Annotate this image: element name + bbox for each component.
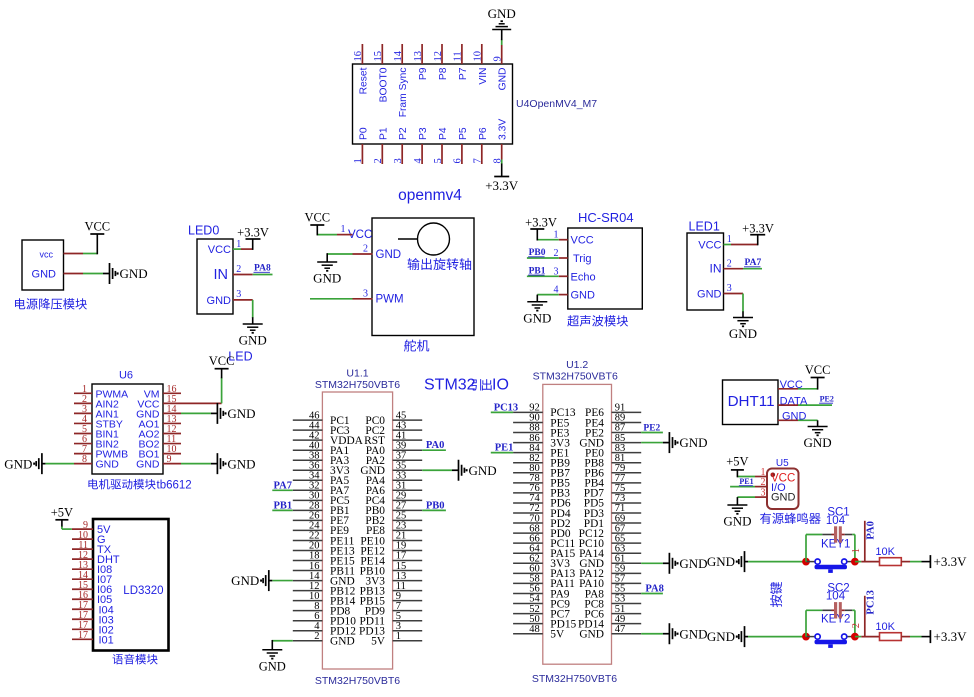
U1.2 pin 69 PD1 (584, 513, 641, 530)
svg-text:STM32H750VBT6: STM32H750VBT6 (533, 371, 618, 383)
wire U6 GND pin9 (181, 463, 211, 465)
U6 pin 1 PWMA (74, 384, 128, 401)
wire LED1 GND down (742, 294, 744, 318)
svg-text:GND: GND (771, 492, 796, 504)
wire DHT11 VCC to VCC (798, 378, 818, 390)
U1.2 pin 89 PE4 (585, 413, 641, 430)
ground below U5 (723, 505, 751, 529)
net label PE2 at DHT11 (819, 395, 834, 404)
svg-text:LD3320: LD3320 (123, 585, 163, 597)
U5 pin 2 (755, 477, 767, 488)
U1.1 pin 34 PA5 (293, 470, 350, 487)
U1.2 pin 84 PE1 (513, 443, 569, 460)
svg-text:P3: P3 (418, 127, 429, 140)
wire U1.1 pin2 GND down (272, 640, 293, 650)
U1.2 pin 64 PA15 (513, 543, 575, 560)
svg-text:PB1: PB1 (274, 500, 293, 511)
wire net PA0 stub U1.1 pin39 (422, 449, 446, 451)
LD3320 pin 12 DHT (72, 550, 120, 566)
svg-text:P7: P7 (458, 67, 469, 80)
svg-text:GND: GND (729, 326, 757, 341)
wire U6 VCC pin15 to VCC (181, 369, 222, 404)
svg-text:LED0: LED0 (188, 224, 219, 238)
U1.2 pin 71 PD3 (584, 503, 641, 520)
push button KEY1 (806, 539, 855, 573)
U1.2 pin 85 GND (579, 433, 641, 450)
svg-text:GND: GND (227, 456, 255, 471)
U4 pin 10 VIN (473, 44, 489, 85)
wire U5 VCC to +5V (737, 470, 755, 477)
U1.2 pin 77 PB4 (584, 473, 641, 490)
svg-text:GND: GND (96, 459, 120, 471)
ground left of U6 pin8 (4, 453, 45, 474)
ground right of U1.1 pin35 (452, 460, 497, 481)
svg-text:GND: GND (679, 626, 707, 641)
LED1 pin 1 VCC (698, 234, 757, 252)
svg-text:STM32H750VBT6: STM32H750VBT6 (315, 379, 400, 391)
LD3320 pin 13 I08 (72, 560, 112, 576)
wire junction to resistor (855, 561, 880, 563)
wire net PE2 stub U1.2 pin87 (641, 432, 663, 434)
U1.2 pin 65 PC10 (579, 533, 642, 550)
svg-text:+5V: +5V (51, 506, 73, 520)
power +3.3V right of KEY1 (930, 554, 967, 569)
label voice module name (113, 654, 158, 665)
power-buck pin GND (32, 269, 83, 281)
wire servo VCC (317, 225, 337, 235)
wire net PC13 vertical (864, 596, 866, 637)
U1.1 pin 18 PE15 (293, 551, 355, 568)
ground below LED0 (239, 324, 267, 348)
U1.1 pin 33 PA4 (366, 470, 422, 487)
svg-text:GND: GND (723, 514, 751, 529)
U1.1 pin 29 PC4 (365, 491, 422, 508)
U1.1 pin 25 PB2 (365, 511, 422, 528)
svg-text:U5: U5 (776, 458, 789, 469)
svg-text:GND: GND (707, 629, 735, 644)
net label PA7 at U1.1 (274, 480, 292, 491)
svg-text:48: 48 (529, 624, 540, 635)
wire capacitor loop SC2 (806, 610, 855, 636)
U1.1 pin 12 PB12 (293, 581, 356, 598)
svg-text:47: 47 (615, 624, 626, 635)
svg-text:PE2: PE2 (643, 424, 660, 434)
U1.2 pin 87 PE2 (585, 423, 641, 440)
svg-text:PC13: PC13 (866, 590, 877, 615)
svg-text:P6: P6 (478, 127, 489, 140)
LD3320 pin 17 I03 (72, 610, 114, 626)
module LD3320 body (93, 519, 169, 651)
net label PB1 at U1.1 (274, 500, 293, 511)
U1.1 pin 23 PE8 (366, 521, 422, 538)
svg-text:VCC: VCC (84, 220, 110, 234)
svg-text:2: 2 (373, 158, 384, 163)
ground right of U1.2 pin85 (663, 432, 708, 453)
wire resistor to +3.3V (901, 561, 930, 563)
net label PE1 at U5 (739, 477, 754, 486)
wire servo GND (327, 253, 352, 262)
svg-text:IN: IN (214, 267, 229, 283)
U1.2 pin 59 PA12 (579, 564, 641, 581)
svg-text:GND: GND (523, 310, 551, 325)
U1.1 pin 46 PC1 (293, 410, 350, 427)
svg-text:GND: GND (4, 456, 32, 471)
module LED0 body (188, 224, 233, 315)
U1.2 pin 54 PC9 (513, 594, 570, 611)
wire LED0 VCC to +3.3V (252, 239, 254, 250)
U1.2 pin 92 PC13 (513, 403, 576, 420)
svg-text:GND: GND (498, 68, 509, 91)
U1.2 pin 47 GND (579, 624, 641, 641)
U1.2 pin 55 PA8 (585, 584, 641, 601)
U1.1 pin 40 PA1 (293, 440, 350, 457)
svg-text:openmv4: openmv4 (398, 187, 462, 204)
module power-buck body (22, 240, 64, 290)
svg-text:PA0: PA0 (426, 440, 444, 451)
U1.1 pin 22 PE11 (293, 531, 355, 548)
net label PC13 at U1.2 (494, 402, 519, 413)
wire U4 pin9 to GND (501, 30, 503, 46)
svg-text:VIN: VIN (478, 68, 489, 85)
wire LED1 IN net PA7 (743, 268, 762, 270)
DHT11 pin VCC (778, 379, 803, 391)
wire net PB0 stub U1.1 pin27 (422, 509, 446, 511)
module HC-SR04 body (568, 210, 643, 309)
U5 pin 3 (755, 488, 767, 499)
svg-text:GND: GND (231, 573, 259, 588)
wire capacitor loop SC1 (806, 535, 855, 562)
U1.2 pin 66 PC11 (513, 533, 575, 550)
U1.1 pin 14 GND (293, 571, 355, 588)
wire HC-SR04 VCC to +3.3V (537, 229, 559, 241)
U1.1 pin 17 PE14 (360, 551, 422, 568)
U6 pin 8 GND (74, 454, 119, 471)
U4 pin 14 Fram Sync (393, 44, 409, 117)
U6 pin 3 AIN1 (74, 404, 119, 421)
LED0 pin 2 IN (214, 264, 253, 283)
U1.1 pin 16 PB11 (293, 561, 355, 578)
svg-text:GND: GND (488, 6, 516, 21)
U4 pin 6 P5 (453, 127, 469, 164)
ground right of U1.2 pin61 (663, 553, 708, 574)
U4 value label openmv4 (398, 187, 462, 204)
svg-text:1: 1 (851, 548, 862, 553)
U6 pin 12 AO2 (138, 424, 181, 441)
svg-text:GND: GND (804, 435, 832, 450)
HC-SR04 pin 4 GND (554, 285, 596, 302)
svg-text:P4: P4 (438, 127, 449, 140)
svg-text:GND: GND (679, 556, 707, 571)
U1.2 reference designator (533, 359, 618, 383)
U1.1 pin 15 PB10 (360, 561, 423, 578)
HC-SR04 pin 1 VCC (554, 230, 594, 247)
svg-text:GND: GND (239, 333, 267, 348)
U1.1 pin 43 PC2 (365, 420, 422, 437)
svg-text:+3.3V: +3.3V (934, 629, 968, 644)
svg-text:+3.3V: +3.3V (742, 222, 774, 236)
net label PB0 (528, 248, 546, 258)
svg-text:STM32: STM32 (424, 377, 476, 394)
U1.2 pin 86 3V3 (513, 433, 570, 450)
svg-text:GND: GND (227, 406, 255, 421)
svg-text:Fram Sync: Fram Sync (398, 68, 409, 118)
module U6 motor driver body (92, 370, 163, 475)
U1.2 pin 74 PD6 (513, 493, 571, 510)
wire U6 GND pin8 (45, 463, 74, 465)
svg-text:GND: GND (469, 463, 497, 478)
junction at KEY2 right (851, 633, 859, 641)
wire LED0 GND down (252, 300, 254, 324)
svg-text:PE2: PE2 (820, 395, 834, 404)
button pin number 2 (851, 623, 862, 628)
U6 pin 10 BO1 (138, 444, 181, 461)
ground right of U6 pin9 (211, 453, 256, 474)
svg-text:2: 2 (236, 264, 241, 275)
label buzzer name (760, 513, 821, 524)
wire U1.2 pin47 GND (641, 633, 663, 635)
HC-SR04 pin 3 Echo (554, 266, 596, 283)
junction at KEY2 left (802, 633, 810, 641)
svg-text:2: 2 (363, 244, 368, 255)
U1.2 pin 90 PE5 (513, 413, 569, 430)
U1.1 pin 20 PE13 (293, 541, 355, 558)
HC-SR04 pin 2 Trig (554, 248, 592, 265)
U1.2 pin 53 PC8 (584, 594, 641, 611)
wire ground to KEY1 (748, 561, 806, 563)
U1.1 pin 4 PD12 (293, 621, 356, 638)
module DHT11 body (723, 380, 779, 425)
svg-text:PC13: PC13 (494, 402, 519, 413)
svg-text:GND: GND (571, 290, 596, 302)
svg-text:GND: GND (32, 269, 57, 281)
wire U1.2 pin61 GND (641, 562, 663, 564)
svg-text:11: 11 (453, 51, 464, 61)
U1.1 bottom value label (315, 675, 400, 687)
svg-text:2: 2 (314, 631, 319, 642)
U1.1 pin 1 5V (371, 631, 422, 648)
LD3320 pin 14 I07 (72, 570, 112, 586)
U6 pin 2 AIN2 (74, 394, 119, 411)
U1.2 pin 70 PD2 (513, 513, 571, 530)
svg-text:104: 104 (826, 515, 846, 527)
svg-text:1: 1 (396, 631, 401, 642)
capacitor SC2 104 (826, 582, 850, 618)
wire net PC13 stub U1.2 pin92 (491, 411, 513, 413)
label servo name (404, 340, 429, 352)
capacitor SC1 104 (826, 507, 850, 543)
U1.1 pin 2 GND (293, 631, 355, 648)
svg-text:Echo: Echo (571, 271, 596, 283)
svg-text:GND: GND (579, 629, 604, 641)
LED1 pin 2 IN (710, 259, 744, 276)
wire GND pin to ground (83, 273, 103, 275)
U6 pin 4 STBY (74, 414, 123, 431)
svg-text:GND: GND (330, 636, 355, 648)
LD3320 pin 11 TX (72, 540, 112, 556)
U4 pin 5 P4 (433, 127, 449, 164)
wire resistor to +3.3V (901, 636, 930, 638)
U1.2 pin 81 PB8 (584, 453, 641, 470)
U4 pin 2 P1 (373, 127, 389, 164)
svg-text:10K: 10K (875, 621, 895, 633)
U1.2 pin 63 PA14 (579, 543, 641, 560)
svg-text:104: 104 (826, 591, 846, 603)
U1.2 pin 58 PA11 (513, 574, 575, 591)
U6 pin 13 AO1 (138, 414, 181, 431)
U1.1 pin 19 PE12 (360, 541, 422, 558)
module LED1 body (687, 220, 724, 311)
U1.1 reference designator (315, 368, 400, 392)
power VCC above DHT11 (805, 363, 831, 378)
LD3320 pin 17 I04 (72, 600, 114, 616)
wire HC-SR04 Trig net PB0 (527, 257, 559, 259)
U4 pin 7 P6 (473, 127, 489, 164)
U1.2 pin 76 PB3 (513, 483, 570, 500)
U4 pin 13 P9 (413, 44, 429, 80)
U6 pin 9 GND (136, 454, 181, 471)
wire +5V to LD3320 pin9 (62, 520, 72, 529)
svg-text:+3.3V: +3.3V (485, 178, 519, 193)
wire DHT11 DATA net PE2 (798, 404, 832, 406)
U6 pin 14 GND (136, 404, 181, 421)
U1.2 pin 57 PA10 (579, 574, 641, 591)
svg-text:5V: 5V (371, 636, 386, 648)
U1.2 pin 52 PC7 (513, 604, 570, 621)
power VCC above servo (304, 211, 330, 226)
U1.1 pin 3 PD13 (359, 621, 422, 638)
U4 pin 1 P0 (353, 127, 369, 164)
svg-text:1: 1 (341, 224, 346, 235)
LD3320 pin 16 I05 (72, 590, 112, 606)
svg-text:1: 1 (727, 234, 732, 245)
U1.2 pin 51 PC6 (584, 604, 641, 621)
servo pin 3 PWM (353, 288, 404, 305)
svg-text:3: 3 (363, 288, 368, 299)
net label PA7 (744, 258, 761, 268)
power +3.3V right of KEY2 (930, 629, 967, 644)
svg-text:GND: GND (679, 435, 707, 450)
svg-text:P5: P5 (458, 127, 469, 140)
net label PA0 at U1.1 (426, 440, 444, 451)
U6 pin 7 PWMB (74, 444, 128, 461)
U6 pin 5 BIN1 (74, 424, 119, 441)
U4 pin 11 P7 (453, 44, 469, 80)
servo pin 2 GND (353, 244, 402, 261)
svg-text:U6: U6 (119, 370, 133, 382)
net label PE1 at U1.2 (495, 443, 514, 454)
svg-text:VCC: VCC (698, 240, 721, 252)
ground left of U1.1 pin14 (231, 570, 272, 591)
U4 pin 15 BOOT0 (373, 44, 389, 102)
ground right of U1.2 pin47 (663, 623, 708, 644)
LED0 pin 1 VCC (208, 239, 253, 256)
junction at KEY1 right (851, 558, 859, 566)
U1.1 pin 11 PB13 (360, 581, 423, 598)
ground below DHT11 (804, 427, 832, 451)
svg-text:I01: I01 (99, 634, 114, 646)
U4 pin 9 GND (493, 45, 509, 90)
svg-text:GND: GND (207, 295, 232, 307)
U1.1 pin 5 PD11 (359, 611, 422, 628)
power +3.3V above LED0 (237, 225, 269, 239)
svg-text:U4OpenMV4_M7: U4OpenMV4_M7 (516, 98, 597, 110)
U1.1 pin 7 PD9 (365, 601, 422, 618)
ground below servo VCC (313, 262, 341, 286)
LD3320 pin 17 I01 (72, 630, 114, 646)
U1.1 pin 31 PA6 (366, 481, 422, 498)
svg-text:3.3V: 3.3V (498, 119, 509, 140)
svg-text:IN: IN (710, 262, 722, 276)
junction at KEY1 left (802, 558, 810, 566)
svg-text:PB0: PB0 (426, 500, 445, 511)
svg-text:3: 3 (236, 289, 241, 300)
U1.2 pin 73 PD5 (584, 493, 641, 510)
U1.1 pin 35 GND (360, 460, 422, 477)
svg-text:VCC: VCC (209, 354, 235, 368)
svg-text:GND: GND (136, 459, 160, 471)
U1.2 pin 49 PD14 (578, 614, 641, 631)
U6 pin 11 BO2 (138, 434, 181, 451)
wire U5 I/O net PE1 (730, 486, 755, 488)
U6 pin 16 VM (144, 384, 181, 401)
svg-text:1: 1 (353, 158, 364, 163)
wire U5 GND down (737, 497, 755, 505)
connector U1.1 body (322, 392, 392, 669)
wire net PA7 stub U1.1 pin32 (272, 489, 293, 491)
LD3320 pin 17 I02 (72, 620, 114, 636)
label power-buck module name (15, 298, 87, 309)
DHT11 pin GND (778, 411, 807, 423)
svg-text:GND: GND (313, 271, 341, 286)
svg-text:P1: P1 (378, 127, 389, 140)
svg-text:VCC: VCC (208, 244, 231, 256)
svg-text:P2: P2 (398, 127, 409, 140)
ground below U1.1 (259, 650, 286, 674)
wire ground to KEY2 (748, 636, 806, 638)
LD3320 pin 9 5V (72, 520, 111, 536)
svg-text:GND: GND (259, 659, 286, 673)
svg-text:GND: GND (707, 554, 735, 569)
net label PE2 at U1.2 (643, 424, 660, 434)
U1.2 pin 61 GND (579, 554, 641, 571)
DHT11 pin DATA (778, 395, 808, 407)
svg-text:tb6612: tb6612 (157, 480, 192, 492)
svg-text:2: 2 (851, 623, 862, 628)
ground left of KEY2 (707, 626, 748, 647)
power +5V above U5 (726, 455, 748, 470)
U1.2 pin 48 5V (513, 624, 565, 641)
ground below LED1 (729, 318, 757, 342)
module U4 openmv4 body (353, 64, 513, 144)
U1.1 pin 36 3V3 (293, 460, 350, 477)
wire U1.1 pin35 GND (422, 469, 452, 471)
svg-text:DHT11: DHT11 (728, 393, 775, 410)
net label PA0 (866, 521, 877, 539)
label keys group name (770, 582, 782, 607)
U1.1 pin 32 PA7 (293, 481, 350, 498)
svg-text:P8: P8 (438, 67, 449, 80)
U4 pin 16 Reset (353, 44, 369, 94)
U1.1 pin 13 3V3 (365, 571, 422, 588)
ground below HC-SR04 (523, 302, 551, 326)
U1.2 pin 75 PD7 (584, 483, 641, 500)
svg-text:U1.1: U1.1 (346, 368, 368, 380)
LD3320 pin 10 G (72, 530, 106, 546)
U1.1 pin 27 PB0 (365, 501, 422, 518)
svg-text:STM32H750VBT6: STM32H750VBT6 (315, 675, 400, 687)
U1.2 pin 88 PE3 (513, 423, 569, 440)
label servo shaft text (408, 258, 472, 270)
